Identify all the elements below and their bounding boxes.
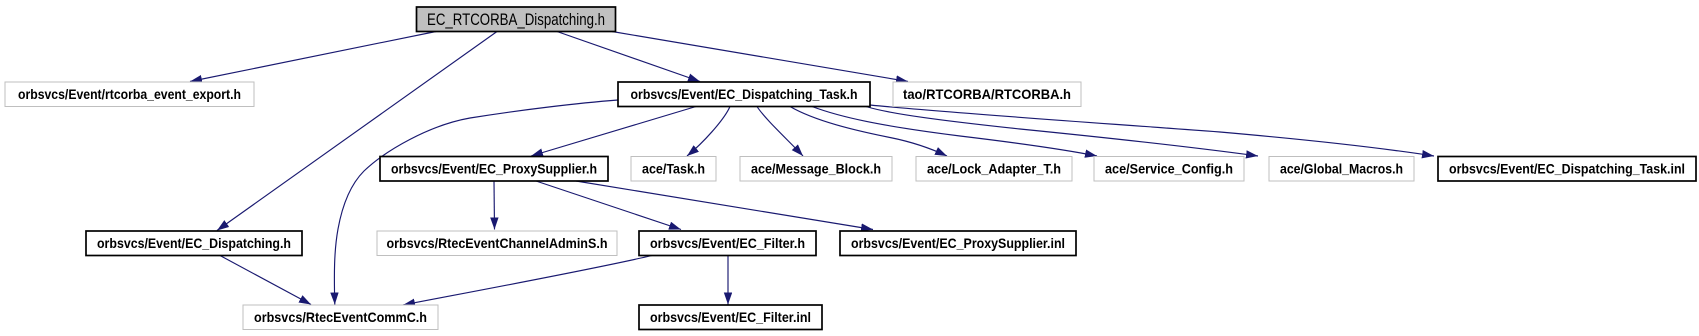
wire EC_Filter to RtecEventCommC xyxy=(403,256,652,306)
svg-text:orbsvcs/Event/EC_Dispatching.h: orbsvcs/Event/EC_Dispatching.h xyxy=(97,235,291,251)
wire EC_Dispatching_Task to ace/Message_Block.h xyxy=(757,107,803,157)
svg-text:ace/Service_Config.h: ace/Service_Config.h xyxy=(1105,160,1233,176)
svg-text:orbsvcs/RtecEventCommC.h: orbsvcs/RtecEventCommC.h xyxy=(254,309,427,325)
node ace/Service_Config.h xyxy=(1094,157,1244,182)
wire root to tao/RTCORBA xyxy=(612,32,908,82)
svg-text:EC_RTCORBA_Dispatching.h: EC_RTCORBA_Dispatching.h xyxy=(427,11,605,29)
node orbsvcs/RtecEventCommC.h xyxy=(243,305,438,330)
svg-text:tao/RTCORBA/RTCORBA.h: tao/RTCORBA/RTCORBA.h xyxy=(903,86,1071,102)
wire root to EC_Dispatching_Task xyxy=(557,32,700,82)
wire EC_Dispatching_Task to EC_Dispatching_Task.inl xyxy=(870,105,1434,156)
node ace/Message_Block.h xyxy=(740,157,892,182)
node ace/Lock_Adapter_T.h xyxy=(916,157,1072,182)
node tao/RTCORBA/RTCORBA.h xyxy=(893,82,1081,107)
svg-text:ace/Message_Block.h: ace/Message_Block.h xyxy=(751,160,881,176)
node orbsvcs/Event/EC_Dispatching.h xyxy=(86,231,302,256)
svg-text:ace/Lock_Adapter_T.h: ace/Lock_Adapter_T.h xyxy=(927,160,1061,176)
node orbsvcs/Event/EC_ProxySupplier.inl xyxy=(840,231,1076,256)
svg-text:ace/Task.h: ace/Task.h xyxy=(642,160,705,176)
svg-text:orbsvcs/Event/EC_Filter.h: orbsvcs/Event/EC_Filter.h xyxy=(650,235,805,251)
wire EC_Dispatching_Task to ace/Service_Config.h xyxy=(812,107,1097,157)
svg-text:orbsvcs/Event/EC_Dispatching_T: orbsvcs/Event/EC_Dispatching_Task.h xyxy=(631,86,858,102)
wire EC_Filter to EC_Filter.inl xyxy=(727,256,729,305)
wire EC_Dispatching_Task to ace/Lock_Adapter_T.h xyxy=(790,107,947,157)
svg-text:orbsvcs/Event/EC_Dispatching_T: orbsvcs/Event/EC_Dispatching_Task.inl xyxy=(1449,160,1685,176)
wire EC_Dispatching_Task to ace/Global_Macros.h xyxy=(866,107,1258,157)
wire EC_Dispatching_Task to ace/Task.h xyxy=(687,107,730,157)
wire EC_Dispatching_Task to RtecEventCommC (long curve) xyxy=(334,100,618,305)
node orbsvcs/Event/EC_Dispatching_Task.inl xyxy=(1438,157,1696,182)
svg-text:orbsvcs/Event/EC_ProxySupplier: orbsvcs/Event/EC_ProxySupplier.h xyxy=(391,160,597,176)
node ace/Global_Macros.h xyxy=(1269,157,1414,182)
node orbsvcs/Event/rtcorba_event_export.h xyxy=(5,82,254,107)
node EC_RTCORBA_Dispatching.h (root) xyxy=(417,7,616,32)
wire root to EC_Dispatching xyxy=(217,32,497,231)
wire EC_ProxySupplier to EC_ProxySupplier.inl xyxy=(576,181,873,230)
node ace/Task.h xyxy=(631,157,716,182)
wire root to rtcorba_event_export xyxy=(190,32,436,82)
svg-text:orbsvcs/Event/EC_Filter.inl: orbsvcs/Event/EC_Filter.inl xyxy=(650,309,811,325)
wire EC_Dispatching to RtecEventCommC xyxy=(220,256,311,305)
node orbsvcs/RtecEventChannelAdminS.h xyxy=(377,231,617,256)
wire EC_ProxySupplier to RtecEventChannelAdminS xyxy=(493,181,496,230)
svg-text:orbsvcs/Event/EC_ProxySupplier: orbsvcs/Event/EC_ProxySupplier.inl xyxy=(851,235,1065,251)
node orbsvcs/Event/EC_Filter.h xyxy=(639,231,816,256)
node orbsvcs/Event/EC_ProxySupplier.h xyxy=(380,157,608,182)
svg-text:orbsvcs/RtecEventChannelAdminS: orbsvcs/RtecEventChannelAdminS.h xyxy=(387,235,608,251)
svg-text:orbsvcs/Event/rtcorba_event_ex: orbsvcs/Event/rtcorba_event_export.h xyxy=(18,86,241,102)
svg-text:ace/Global_Macros.h: ace/Global_Macros.h xyxy=(1280,160,1403,176)
node orbsvcs/Event/EC_Dispatching_Task.h xyxy=(618,82,870,107)
node orbsvcs/Event/EC_Filter.inl xyxy=(639,305,822,330)
wire EC_Dispatching_Task to EC_ProxySupplier xyxy=(531,107,696,157)
wire EC_ProxySupplier to EC_Filter xyxy=(536,181,681,230)
